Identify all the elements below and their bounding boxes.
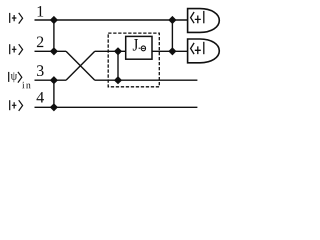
- vertical link 3-4 left: [53, 80, 55, 107]
- node diamond q2 left: [50, 47, 58, 55]
- dashed group box: [108, 33, 159, 87]
- ket label q3: rangle: [18, 72, 22, 83]
- ket label q3: psi: [11, 72, 17, 82]
- node diamond q2 box: [114, 47, 122, 55]
- ket label q4: plus: [12, 102, 17, 108]
- measurement M1 bra-plus: plus: [195, 16, 201, 24]
- wire q1: [35, 19, 188, 21]
- ket label q3 subscript n: [26, 84, 31, 89]
- node diamond q1 left: [50, 16, 58, 24]
- ket label q2: rangle: [19, 44, 23, 55]
- gate label J: [133, 39, 138, 51]
- measurement M2 bra-plus: langle: [191, 43, 195, 54]
- wire crossing up: [66, 51, 95, 80]
- measurement M1 bra-plus: langle: [191, 12, 195, 23]
- measurement M2 bra-plus: bar: [203, 42, 205, 54]
- gate J(-Theta) box: [126, 36, 152, 59]
- wire number 3: [37, 65, 44, 76]
- wire q3 left: [35, 79, 67, 81]
- node diamond q4 left: [50, 103, 58, 111]
- gate subscript minus: [139, 47, 141, 49]
- ket label q1: rangle: [19, 13, 23, 24]
- vertical link 1-2 left: [53, 20, 55, 51]
- ket label q3: bar: [8, 72, 10, 82]
- node diamond q3 box: [114, 76, 122, 84]
- measurement M2 bra-plus: plus: [195, 46, 201, 54]
- ket label q1: bar: [9, 13, 11, 23]
- measurement M1 bra-plus: bar: [203, 11, 205, 23]
- wire number 4: [37, 92, 44, 103]
- measurement M2 shape: [188, 39, 220, 63]
- node diamond q3 left: [50, 76, 58, 84]
- wire q4: [35, 106, 198, 108]
- wire number 2: [37, 37, 43, 48]
- node diamond q2 right: [168, 47, 176, 55]
- vertical link 2-3 in box: [117, 51, 119, 80]
- ket label q3 subscript i: [22, 82, 24, 88]
- wire q2 right: [95, 50, 188, 52]
- ket label q4: rangle: [19, 100, 23, 111]
- wire q2 left: [35, 50, 67, 52]
- ket label q2: bar: [9, 44, 11, 54]
- ket label q2: plus: [12, 46, 17, 52]
- wire crossing down: [66, 51, 95, 80]
- wire number 1: [38, 6, 44, 17]
- measurement M1 shape: [188, 9, 220, 33]
- vertical link 1-2 right: [171, 20, 173, 51]
- gate subscript Theta: [141, 46, 145, 51]
- ket label q4: bar: [9, 100, 11, 110]
- wire q3 right: [95, 79, 198, 81]
- node diamond q1 right: [168, 16, 176, 24]
- ket label q1: plus: [12, 15, 17, 21]
